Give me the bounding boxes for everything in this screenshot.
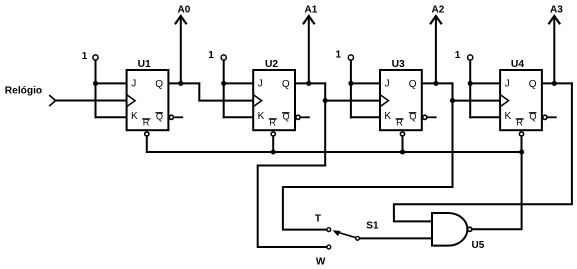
- wire K (U1): [96, 116, 127, 118]
- wire U2.Q down to U3 clk: [325, 83, 380, 100]
- input arrow Relogio: [50, 96, 56, 106]
- NAND gate U5 body: [432, 213, 467, 246]
- svg-text:W: W: [316, 257, 326, 268]
- svg-text:A2: A2: [432, 5, 445, 16]
- flip-flop U1 box: [127, 70, 169, 130]
- wire J (U1): [96, 82, 127, 84]
- clock triangle U3: [381, 96, 388, 106]
- wire A1: [308, 17, 310, 84]
- arrowhead A0: [176, 16, 186, 23]
- Q-bar bubble U2: [296, 115, 300, 119]
- node Q junction U4 (A3): [552, 81, 557, 86]
- Q-bar bubble U4: [543, 115, 547, 119]
- terminal 1 (U2): [221, 55, 226, 60]
- node clk branch U2.Q: [323, 98, 328, 103]
- wire Q of U1: [169, 82, 200, 84]
- wire A0: [180, 17, 182, 84]
- terminal 1 (U1): [93, 55, 98, 60]
- node Q junction U2 (A1): [306, 81, 311, 86]
- R-bar bubble U1: [145, 132, 149, 136]
- Q-bar stub U2: [300, 116, 309, 118]
- svg-text:1: 1: [82, 51, 88, 62]
- wire 1 to J/K (U4): [469, 60, 471, 117]
- wire K (U2): [224, 116, 254, 118]
- node bus junction U2: [271, 149, 276, 154]
- node J junction U2: [221, 81, 226, 86]
- terminal 1 (U3): [348, 55, 353, 60]
- wire U5 output to reset bus: [472, 152, 522, 229]
- svg-text:Q: Q: [409, 79, 417, 90]
- svg-text:J: J: [131, 79, 136, 90]
- flip-flop U2 box: [253, 70, 295, 130]
- svg-text:Q: Q: [155, 79, 163, 90]
- wire 1 to J/K (U3): [350, 60, 352, 117]
- node Q junction U1 (A0): [178, 81, 183, 86]
- wire A3: [553, 17, 555, 84]
- clock triangle U2: [254, 96, 261, 106]
- arrowhead A2: [431, 16, 441, 23]
- R-bar stem U3: [402, 136, 404, 152]
- svg-text:A0: A0: [178, 5, 191, 16]
- svg-text:T: T: [315, 214, 321, 225]
- clock triangle U1: [128, 96, 135, 106]
- svg-text:Q: Q: [529, 79, 537, 90]
- wire 1 to J/K (U2): [223, 60, 225, 117]
- Q-bar bubble U1: [169, 115, 173, 119]
- arrowhead A3: [549, 16, 559, 23]
- R-bar stem U2: [272, 136, 274, 152]
- flip-flop U3 box: [380, 70, 422, 130]
- R-bar stem U1: [146, 136, 148, 152]
- switch S1 pole contact: [356, 236, 360, 240]
- svg-text:S1: S1: [366, 221, 379, 232]
- wire U4.Q to NAND input A: [394, 83, 572, 221]
- Q-bar bubble U3: [423, 115, 427, 119]
- node clk branch U3.Q: [450, 98, 455, 103]
- svg-text:U3: U3: [392, 59, 405, 70]
- terminal 1 (U4): [468, 55, 473, 60]
- clock triangle U4: [501, 96, 508, 106]
- svg-text:1: 1: [208, 50, 214, 61]
- wire A2: [435, 17, 437, 84]
- node J junction U1: [93, 81, 98, 86]
- svg-text:A1: A1: [305, 5, 318, 16]
- svg-text:U2: U2: [265, 59, 278, 70]
- node bus junction U4/U5: [519, 149, 524, 154]
- wire Q of U2: [295, 82, 325, 84]
- svg-text:K: K: [131, 111, 138, 122]
- wire J (U3): [351, 82, 380, 84]
- arrowhead A1: [304, 16, 314, 23]
- svg-text:U4: U4: [511, 59, 524, 70]
- wire Q of U3: [422, 82, 453, 84]
- svg-text:1: 1: [336, 50, 342, 61]
- svg-text:U1: U1: [138, 59, 151, 70]
- wire J (U2): [224, 82, 254, 84]
- R-bar bubble U3: [400, 132, 404, 136]
- Q-bar stub U1: [174, 116, 183, 118]
- wire Relogio to U1 CLK: [56, 100, 127, 102]
- svg-text:U5: U5: [472, 240, 485, 251]
- svg-text:Relógio: Relógio: [5, 85, 42, 96]
- wire K (U4): [470, 116, 500, 118]
- svg-text:K: K: [258, 111, 265, 122]
- Q-bar stub U4: [547, 116, 556, 118]
- svg-text:J: J: [505, 79, 510, 90]
- wire J (U4): [470, 82, 500, 84]
- svg-text:K: K: [384, 111, 391, 122]
- node J junction U4: [468, 81, 473, 86]
- node J junction U3: [348, 81, 353, 86]
- NAND output bubble U5: [468, 227, 472, 231]
- svg-text:K: K: [505, 111, 512, 122]
- wire 1 to J/K (U1): [95, 60, 97, 117]
- node bus junction U3: [400, 149, 405, 154]
- switch S1 arm arrowhead: [333, 230, 341, 236]
- svg-text:A3: A3: [550, 5, 563, 16]
- switch S1 arm: [339, 233, 356, 238]
- wire reset bus: [147, 151, 522, 153]
- wire S1 pole to NAND input B: [360, 237, 432, 239]
- R-bar bubble U4: [519, 132, 523, 136]
- switch S1 contact W: [327, 245, 331, 249]
- wire K (U3): [351, 116, 380, 118]
- wire Q of U4: [542, 82, 572, 84]
- node Q junction U3 (A2): [433, 81, 438, 86]
- svg-text:Q: Q: [282, 79, 290, 90]
- wire U3.Q down to U4 clk: [453, 83, 501, 100]
- wire branch U2.Q to W contact: [258, 101, 327, 247]
- wire U1.Q down to U2 clk: [199, 83, 253, 100]
- R-bar stem U4: [521, 136, 523, 152]
- wire branch U3.Q to T contact: [283, 101, 453, 230]
- svg-text:J: J: [258, 79, 263, 90]
- svg-text:J: J: [385, 79, 390, 90]
- switch S1 contact T: [327, 228, 331, 232]
- R-bar bubble U2: [271, 132, 275, 136]
- flip-flop U4 box: [500, 70, 542, 130]
- svg-text:1: 1: [455, 50, 461, 61]
- Q-bar stub U3: [427, 116, 436, 118]
